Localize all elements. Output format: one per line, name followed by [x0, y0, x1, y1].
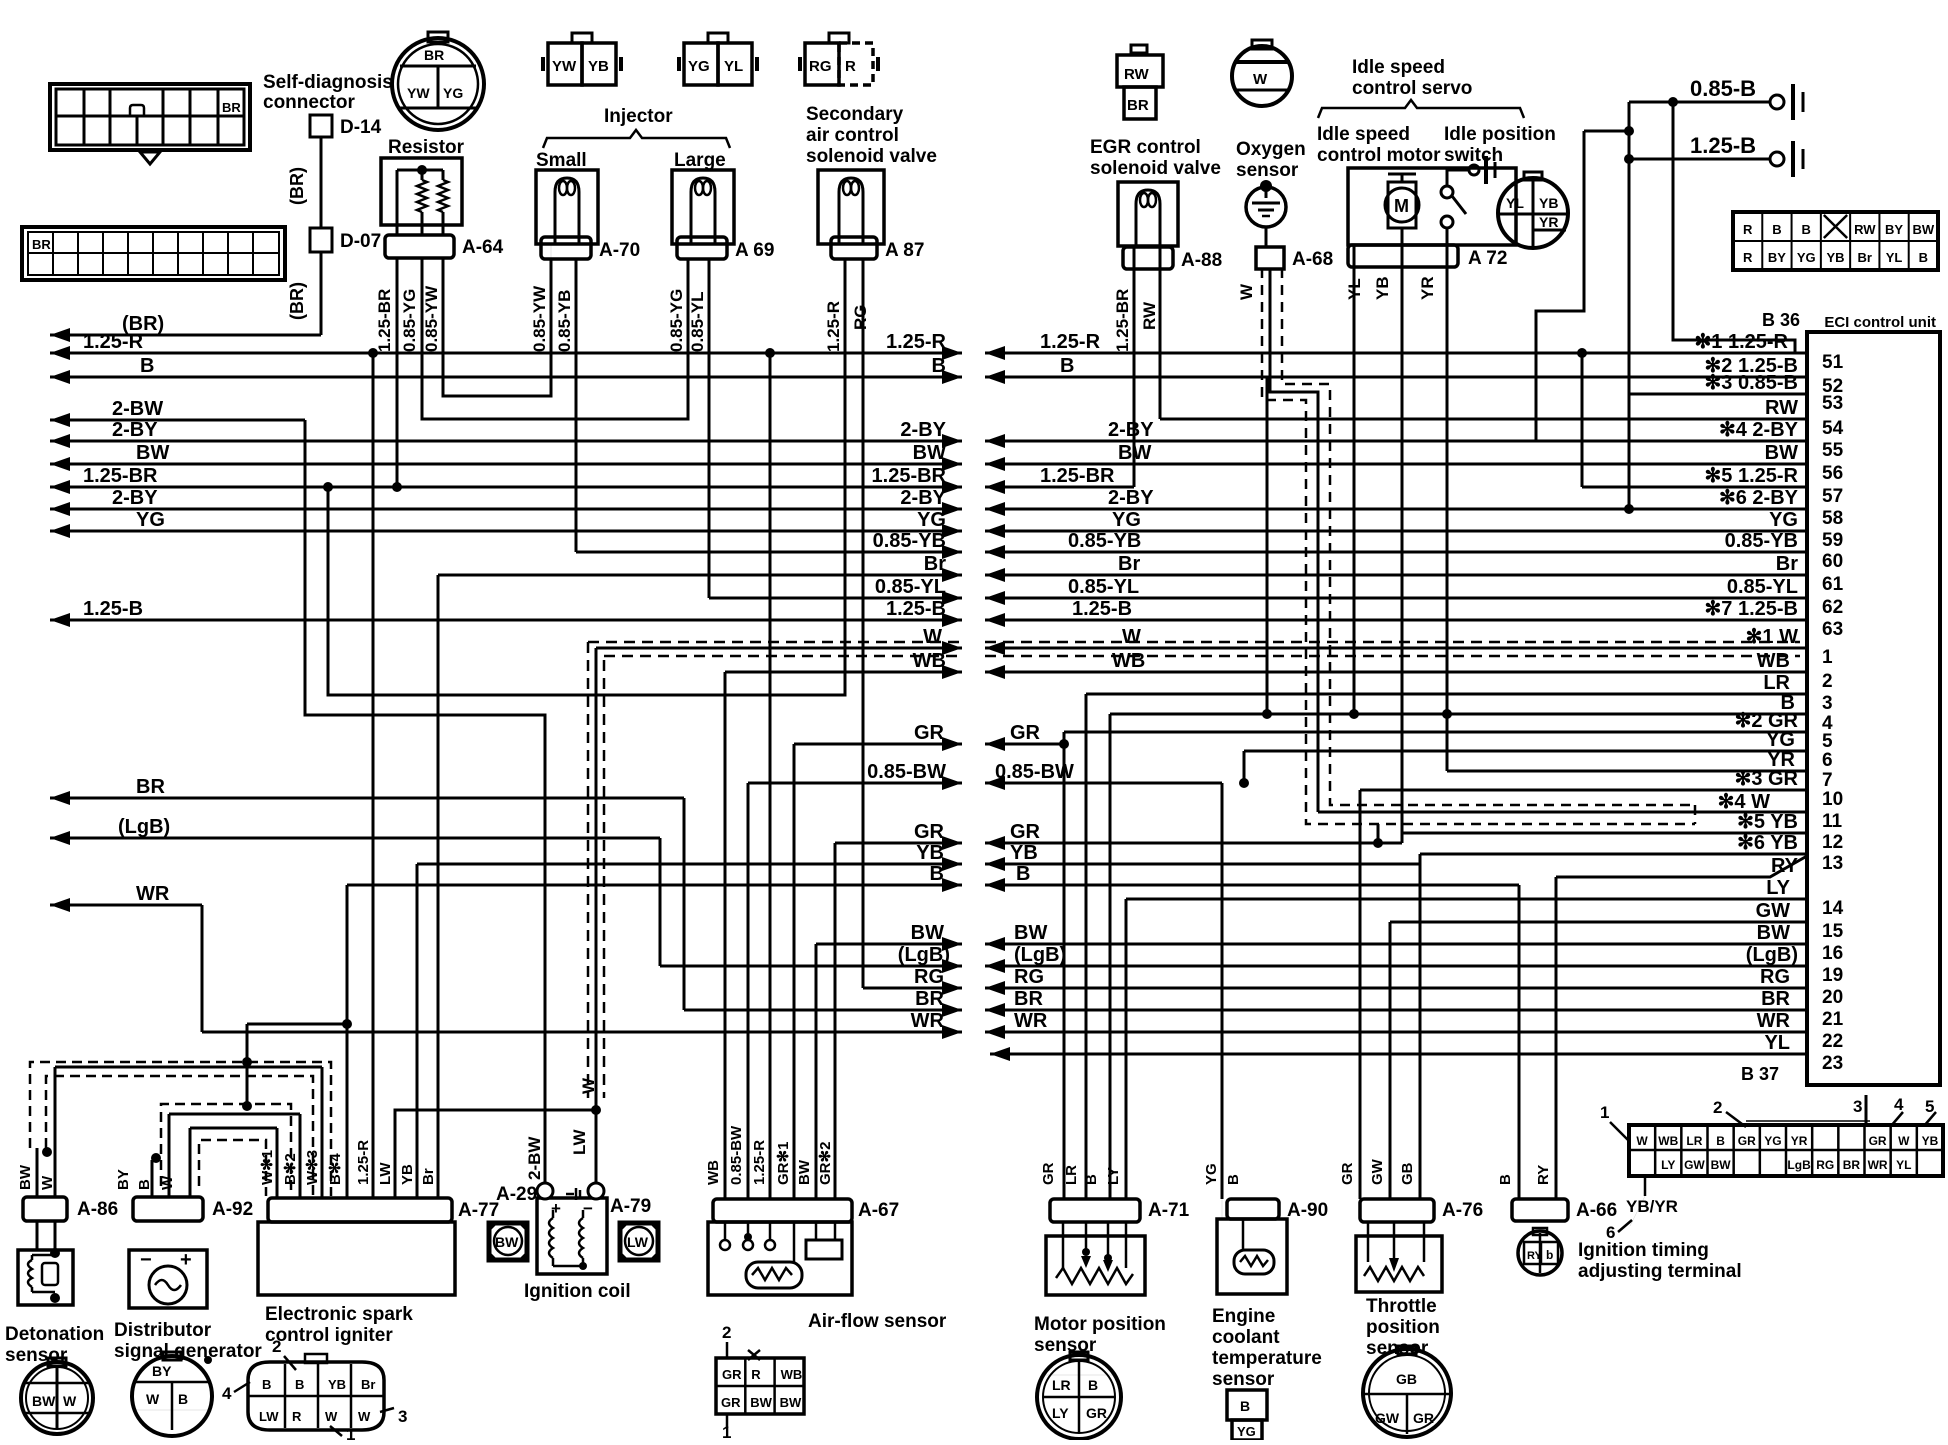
wire RW to pin 54 — [1160, 418, 1807, 421]
injector Small symbol — [536, 170, 598, 244]
svg-text:1.25-R: 1.25-R — [886, 331, 947, 353]
svg-text:✻4 2-BY: ✻4 2-BY — [1719, 419, 1799, 441]
svg-text:A-77: A-77 — [458, 1200, 499, 1221]
wire B from igniter — [347, 884, 962, 887]
wire GR*1 to air-flow sensor — [793, 744, 796, 1199]
svg-text:WB: WB — [1112, 650, 1145, 672]
wire WB to air-flow sensor — [724, 672, 727, 1199]
svg-text:D-07: D-07 — [340, 231, 381, 252]
svg-text:solenoid valve: solenoid valve — [806, 146, 937, 167]
wire 0.85-YL from A 69 — [708, 258, 711, 598]
node B*4 shield drain junction — [342, 1019, 352, 1029]
svg-text:W: W — [1122, 626, 1141, 648]
connector square LW — [620, 1223, 658, 1260]
svg-text:BW: BW — [1014, 922, 1047, 944]
svg-text:BR: BR — [1843, 1158, 1861, 1172]
svg-text:YG: YG — [443, 85, 463, 101]
svg-text:Br: Br — [420, 1168, 437, 1185]
svg-text:BR: BR — [32, 237, 51, 252]
wire 0.85-YB — [576, 551, 962, 554]
wire secondary valve 1.25-R link — [328, 258, 845, 695]
bracket idle speed servo — [1318, 100, 1524, 118]
svg-text:Ignition coil: Ignition coil — [524, 1281, 631, 1302]
air-flow resistor — [746, 1262, 802, 1288]
wire 1.25-BR left part of pin 57 row — [985, 486, 1134, 489]
svg-text:+: + — [180, 1249, 192, 1271]
svg-text:A-79: A-79 — [610, 1196, 651, 1217]
svg-text:RG: RG — [914, 966, 944, 988]
svg-text:BW: BW — [796, 1159, 813, 1185]
svg-text:2: 2 — [272, 1337, 281, 1356]
wire RW from EGR A-88 — [1159, 268, 1162, 419]
wire 2-BY (2) — [50, 508, 962, 511]
connector A-90 — [1227, 1199, 1279, 1219]
svg-text:0.85-YG: 0.85-YG — [400, 289, 419, 352]
svg-text:0.85-YL: 0.85-YL — [1727, 576, 1798, 598]
svg-text:Injector: Injector — [604, 106, 673, 127]
wire B distributor — [168, 1114, 171, 1197]
svg-text:54: 54 — [1822, 418, 1844, 439]
svg-text:connector: connector — [263, 92, 355, 113]
wire YL from A 72 — [1353, 268, 1356, 714]
node W/LW/coil junction — [591, 1105, 601, 1115]
svg-text:adjusting terminal: adjusting terminal — [1578, 1261, 1742, 1282]
wire BW to pin 56 — [985, 463, 1807, 466]
svg-text:(BR): (BR) — [287, 282, 307, 320]
wire (LgB) to pin 19 — [985, 965, 1807, 968]
wire W to pin 1 — [985, 647, 1807, 650]
wire YB from igniter — [417, 863, 962, 866]
svg-text:W: W — [39, 1175, 56, 1190]
svg-text:RW: RW — [1854, 222, 1876, 237]
svg-text:W: W — [1253, 71, 1268, 88]
svg-text:51: 51 — [1822, 352, 1844, 373]
shield dashed oxygen sensor wire — [1262, 268, 1695, 824]
self-diagnosis connector face view — [50, 84, 250, 150]
wire YB from igniter — [416, 864, 419, 1198]
svg-text:✻4 W: ✻4 W — [1718, 791, 1770, 813]
resistor element 1 — [421, 170, 424, 180]
svg-text:WB: WB — [781, 1367, 803, 1382]
svg-text:LR: LR — [1686, 1134, 1702, 1148]
svg-text:WR: WR — [1014, 1010, 1048, 1032]
svg-text:2-BY: 2-BY — [900, 419, 946, 441]
node GR row junction — [1373, 838, 1383, 848]
svg-text:RW: RW — [1765, 397, 1798, 419]
igniter connector keying — [305, 1354, 327, 1363]
svg-text:Idle speed: Idle speed — [1352, 57, 1445, 78]
svg-text:BR: BR — [424, 47, 444, 63]
svg-text:✻3 GR: ✻3 GR — [1735, 768, 1799, 790]
svg-text:−: − — [583, 1199, 593, 1218]
wire GR to motor position sensor — [1063, 732, 1066, 1199]
wire Br from igniter — [437, 575, 440, 1198]
svg-text:RY: RY — [1535, 1165, 1552, 1185]
svg-text:−: − — [140, 1249, 152, 1271]
svg-text:Br: Br — [1118, 553, 1140, 575]
secondary air control solenoid valve symbol — [818, 170, 884, 244]
svg-text:A 87: A 87 — [885, 240, 924, 261]
wire BY distributor — [151, 1160, 154, 1197]
svg-text:control motor: control motor — [1317, 145, 1441, 166]
svg-text:YB: YB — [1922, 1134, 1939, 1148]
svg-text:YB: YB — [1373, 276, 1392, 300]
svg-text:Distributor: Distributor — [114, 1320, 212, 1341]
svg-text:Resistor: Resistor — [388, 137, 465, 158]
svg-text:LY: LY — [1661, 1158, 1675, 1172]
svg-text:B: B — [1802, 222, 1811, 237]
svg-text:GW: GW — [1375, 1410, 1400, 1426]
svg-text:✻6 YB: ✻6 YB — [1737, 832, 1798, 854]
svg-text:1.25-B: 1.25-B — [1690, 133, 1756, 158]
svg-text:RG: RG — [1760, 966, 1790, 988]
wire shield link — [1377, 824, 1380, 843]
svg-text:coolant: coolant — [1212, 1327, 1280, 1348]
svg-text:YR: YR — [1539, 214, 1558, 230]
svg-text:temperature: temperature — [1212, 1348, 1322, 1369]
svg-text:RG: RG — [1014, 966, 1044, 988]
wire 2-BY riser — [1536, 131, 1584, 441]
connector B/YG coolant — [1227, 1390, 1267, 1420]
callout 6 tick — [1644, 1176, 1647, 1196]
svg-text:WB: WB — [1658, 1134, 1678, 1148]
svg-text:BR: BR — [136, 776, 165, 798]
svg-text:W: W — [63, 1393, 77, 1409]
svg-text:1.25-B: 1.25-B — [83, 598, 143, 620]
wire *5 1.25-R right part to pin 57 — [1582, 486, 1807, 489]
svg-text:RY: RY — [1771, 855, 1799, 877]
svg-text:W✻1: W✻1 — [259, 1150, 276, 1185]
svg-text:B: B — [262, 1377, 271, 1392]
svg-text:GR: GR — [1010, 722, 1041, 744]
node BY shield join — [151, 1153, 161, 1163]
svg-text:Idle speed: Idle speed — [1317, 124, 1410, 145]
svg-text:W: W — [146, 1391, 160, 1407]
svg-text:B: B — [930, 863, 944, 885]
wire 1.25-B to ground — [1629, 158, 1770, 161]
svg-text:✻7 1.25-B: ✻7 1.25-B — [1705, 598, 1798, 620]
svg-text:A-71: A-71 — [1148, 1200, 1190, 1221]
svg-text:YB/YR: YB/YR — [1626, 1197, 1678, 1216]
svg-text:2-BW: 2-BW — [112, 398, 163, 420]
svg-text:2: 2 — [1713, 1098, 1722, 1117]
svg-text:1: 1 — [346, 1425, 355, 1440]
wire YG to coolant sensor — [1221, 783, 1224, 1199]
wire 2-BW to ignition coil — [305, 420, 545, 1182]
wire W distributor — [189, 1128, 192, 1197]
wire YB joining pin 13 — [985, 863, 1420, 866]
svg-text:0.85-YL: 0.85-YL — [875, 576, 946, 598]
svg-text:5: 5 — [1925, 1097, 1934, 1116]
svg-text:GW: GW — [1756, 900, 1791, 922]
connector A-67 — [713, 1199, 852, 1222]
svg-text:R: R — [845, 58, 856, 75]
svg-text:✻5 1.25-R: ✻5 1.25-R — [1705, 465, 1799, 487]
wire 2-BY — [50, 440, 962, 443]
wire link to 2-BY — [1584, 130, 1629, 133]
svg-text:B: B — [178, 1391, 188, 1407]
svg-text:YL: YL — [1345, 278, 1364, 300]
wire vertical pin53-pin58 link — [1628, 394, 1631, 509]
wire W detonation horizontal — [55, 1066, 322, 1069]
wire 1.25-R to pin 57 vertical — [1581, 353, 1584, 487]
node GR junction — [1059, 739, 1069, 749]
svg-text:0.85-YB: 0.85-YB — [1725, 530, 1798, 552]
wire W*1 vertical — [276, 1128, 279, 1198]
svg-text:Br: Br — [1858, 250, 1872, 265]
svg-text:B: B — [1497, 1174, 1514, 1185]
svg-text:GB: GB — [1396, 1371, 1417, 1387]
svg-text:R: R — [1743, 222, 1753, 237]
svg-text:YL: YL — [724, 58, 743, 75]
round connector GB GW GR throttle — [1363, 1349, 1451, 1437]
svg-text:Air-flow sensor: Air-flow sensor — [808, 1311, 947, 1332]
svg-text:A-29: A-29 — [496, 1184, 537, 1205]
svg-text:WR: WR — [1868, 1158, 1888, 1172]
svg-text:A-86: A-86 — [77, 1199, 118, 1220]
wire LR to motor position sensor — [1085, 694, 1088, 1199]
connector A-64 — [385, 235, 454, 258]
svg-text:Small: Small — [536, 150, 587, 171]
svg-text:WB: WB — [705, 1160, 722, 1185]
svg-text:1.25-R: 1.25-R — [83, 331, 144, 353]
svg-text:23: 23 — [1822, 1053, 1843, 1074]
svg-text:2: 2 — [1822, 671, 1833, 692]
svg-text:2-BY: 2-BY — [900, 487, 946, 509]
svg-text:✻3 0.85-B: ✻3 0.85-B — [1705, 372, 1798, 394]
svg-text:YB: YB — [1826, 250, 1844, 265]
svg-text:GW: GW — [1684, 1158, 1705, 1172]
svg-text:D-14: D-14 — [340, 117, 382, 138]
svg-text:YW: YW — [552, 58, 577, 75]
shield dashed detonation outer — [30, 1062, 331, 1196]
svg-text:1.25-B: 1.25-B — [886, 598, 946, 620]
svg-text:GR: GR — [1738, 1134, 1756, 1148]
wire BW — [50, 463, 962, 466]
svg-text:GR: GR — [1869, 1134, 1887, 1148]
svg-text:LY: LY — [1052, 1405, 1069, 1421]
svg-text:B: B — [1083, 1174, 1100, 1185]
svg-text:B: B — [1919, 250, 1928, 265]
ground symbol 1.25-B — [1770, 152, 1784, 166]
wire B to pin 4 — [1110, 713, 1807, 716]
shield dashed detonation inner — [46, 1076, 313, 1196]
svg-text:62: 62 — [1822, 597, 1843, 618]
wire 1.25-R bus — [50, 352, 962, 355]
node detonation shield join — [42, 1147, 52, 1157]
shield dashed end — [1694, 805, 1697, 824]
wire B to A-66 — [985, 884, 1519, 887]
wire YG to pin 6 — [1244, 750, 1807, 753]
connector face YW/YB — [548, 43, 582, 85]
svg-text:BW: BW — [750, 1395, 772, 1410]
svg-text:LW: LW — [259, 1409, 279, 1424]
svg-text:0.85-YL: 0.85-YL — [688, 292, 707, 352]
connector face W oxygen — [1232, 46, 1292, 106]
svg-text:20: 20 — [1822, 987, 1843, 1008]
wire GW to throttle sensor — [1389, 922, 1392, 1199]
wire 1.25-BR from EGR A-88 — [1133, 268, 1136, 487]
svg-text:GR: GR — [914, 722, 945, 744]
wire BR lower — [684, 1009, 962, 1012]
svg-text:B: B — [1240, 1398, 1250, 1414]
svg-text:YB: YB — [916, 842, 944, 864]
svg-text:GR: GR — [1413, 1410, 1434, 1426]
wire 2-BW — [50, 419, 305, 422]
svg-text:Secondary: Secondary — [806, 104, 904, 125]
resistor element 2 — [442, 170, 445, 180]
svg-text:22: 22 — [1822, 1031, 1843, 1052]
terminal A-29 + — [537, 1183, 553, 1199]
svg-text:A-90: A-90 — [1287, 1200, 1328, 1221]
svg-text:A-67: A-67 — [858, 1200, 899, 1221]
wire WR lower — [202, 1031, 962, 1034]
node drain / det shield — [242, 1057, 252, 1067]
svg-text:3: 3 — [1853, 1097, 1862, 1116]
svg-text:Ignition timing: Ignition timing — [1578, 1240, 1709, 1261]
svg-text:LR: LR — [1063, 1165, 1080, 1185]
connector face RG/R — [805, 43, 839, 85]
svg-text:YG: YG — [1769, 509, 1798, 531]
svg-text:BW: BW — [1913, 222, 1935, 237]
terminal A-79 - — [588, 1183, 604, 1199]
svg-text:GR: GR — [1040, 1162, 1057, 1185]
wire BW to air-flow sensor — [815, 944, 818, 1199]
wire (LgB) lower — [660, 965, 962, 968]
svg-text:✻1 1.25-R: ✻1 1.25-R — [1695, 331, 1789, 353]
wire W*3 vertical — [321, 1067, 324, 1198]
wire W oxygen sensor to pin 11 — [1270, 268, 1318, 812]
connector A-66 — [1512, 1199, 1568, 1221]
wire 0.85-BW from air-flow — [748, 782, 962, 785]
wire YB from A 72 — [1401, 268, 1404, 843]
svg-text:B: B — [1016, 863, 1030, 885]
svg-text:Electronic spark: Electronic spark — [265, 1304, 413, 1325]
svg-text:YG: YG — [688, 58, 710, 75]
svg-text:B: B — [1060, 355, 1074, 377]
igniter connector face view — [248, 1362, 384, 1430]
wire BR — [50, 797, 684, 800]
svg-text:BW: BW — [1765, 442, 1798, 464]
svg-text:LY: LY — [1766, 877, 1790, 899]
svg-text:BW: BW — [911, 922, 944, 944]
connector D-14 — [310, 115, 332, 137]
wire GR from air-flow GR*2 — [835, 842, 962, 845]
connector square corner fills — [489, 1223, 498, 1232]
connector strip face view BR — [22, 227, 285, 280]
svg-text:55: 55 — [1822, 440, 1844, 461]
svg-text:YW: YW — [407, 85, 430, 101]
oxygen sensor symbol — [1246, 187, 1286, 227]
connector A 72 — [1348, 245, 1458, 267]
svg-text:57: 57 — [1822, 486, 1843, 507]
svg-text:61: 61 — [1822, 574, 1844, 595]
connector D-07 — [310, 228, 332, 252]
shield dashed distributor outer — [161, 1104, 291, 1196]
wire *5 YB to pin 12 — [1402, 832, 1807, 835]
wire 0.85-YL — [709, 597, 962, 600]
svg-text:2-BY: 2-BY — [112, 487, 158, 509]
idle speed control servo box — [1348, 168, 1516, 245]
wire YR from A 72 — [1446, 268, 1449, 771]
svg-text:W: W — [1237, 283, 1256, 300]
svg-text:YR: YR — [1791, 1134, 1808, 1148]
detonation sensor symbol — [18, 1250, 73, 1305]
EGR control solenoid valve symbol — [1118, 182, 1178, 246]
shield dashed distributor inner — [199, 1140, 266, 1196]
svg-text:GR: GR — [1086, 1405, 1107, 1421]
node 1.25-R / air-flow junction — [765, 348, 775, 358]
connector A-76 — [1360, 1199, 1434, 1222]
svg-text:control servo: control servo — [1352, 78, 1472, 99]
wire LY to pin 14 — [1126, 898, 1807, 901]
round connector BY / W B distributor — [132, 1356, 212, 1436]
svg-text:YB: YB — [328, 1377, 346, 1392]
round connector RY/b — [1518, 1231, 1562, 1275]
wire 0.85-B vertical to pin 53 — [1628, 102, 1631, 394]
svg-text:W: W — [1898, 1134, 1910, 1148]
distributor signal generator symbol — [129, 1250, 207, 1308]
wire 0.85-B to ground — [1629, 101, 1770, 104]
svg-text:GR: GR — [722, 1367, 742, 1382]
svg-text:0.85-BW: 0.85-BW — [995, 761, 1074, 783]
svg-text:BW: BW — [495, 1234, 519, 1250]
wire 0.85-YB to pin 60 — [985, 551, 1807, 554]
svg-text:(LgB): (LgB) — [1746, 944, 1798, 966]
svg-text:GR: GR — [914, 821, 945, 843]
svg-text:Br: Br — [924, 553, 946, 575]
wire BR to pin 21 — [985, 1009, 1807, 1012]
svg-text:5: 5 — [1822, 731, 1833, 752]
svg-text:W: W — [358, 1409, 371, 1424]
wire shield drain to B row — [1266, 377, 1269, 714]
svg-text:WB: WB — [913, 650, 946, 672]
svg-text:21: 21 — [1822, 1009, 1844, 1030]
svg-text:B: B — [140, 355, 154, 377]
svg-text:GR: GR — [1010, 821, 1041, 843]
svg-text:A-92: A-92 — [212, 1199, 253, 1220]
svg-text:LW: LW — [570, 1129, 589, 1155]
svg-text:RG: RG — [1816, 1158, 1834, 1172]
svg-text:YG: YG — [1203, 1163, 1220, 1185]
svg-text:1.25-R: 1.25-R — [824, 301, 843, 352]
shield dashed around W wire right half — [985, 641, 1800, 644]
svg-text:YB: YB — [1539, 195, 1558, 211]
wire 0.85-BW to coolant YG — [985, 782, 1222, 785]
svg-text:BW: BW — [780, 1395, 802, 1410]
svg-text:GR✻1: GR✻1 — [775, 1142, 792, 1185]
svg-text:YG: YG — [1764, 1134, 1781, 1148]
svg-text:4: 4 — [222, 1384, 232, 1403]
air-flow sensor box — [708, 1222, 852, 1295]
svg-text:60: 60 — [1822, 551, 1843, 572]
svg-text:BW: BW — [17, 1164, 34, 1190]
svg-text:sensor: sensor — [1212, 1369, 1275, 1390]
svg-text:15: 15 — [1822, 921, 1844, 942]
svg-text:(LgB): (LgB) — [118, 816, 170, 838]
svg-text:BW: BW — [136, 442, 169, 464]
svg-text:YB: YB — [1010, 842, 1038, 864]
wire B*2 vertical — [299, 1114, 302, 1198]
wire 1.25-BR from A-64 — [396, 258, 399, 487]
svg-text:GB: GB — [1399, 1162, 1416, 1185]
wire WR to pin 22 — [985, 1031, 1807, 1034]
connector A-68 — [1256, 247, 1284, 269]
node 2-BY pin58 junction — [1624, 504, 1634, 514]
svg-text:0.85-YB: 0.85-YB — [1068, 530, 1141, 552]
svg-text:WR: WR — [1757, 1010, 1791, 1032]
svg-text:YG: YG — [1766, 729, 1795, 751]
